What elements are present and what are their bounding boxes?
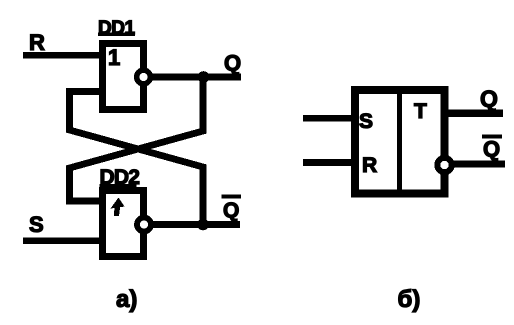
label Qbar (trigger) (482, 135, 502, 162)
label Qbar (222, 195, 242, 223)
wire DD2 output to Qbar (151, 221, 240, 228)
gate DD1 inversion circle (137, 70, 151, 84)
wire S input (23, 238, 103, 245)
node Q junction (198, 71, 210, 83)
inversion circle (trigger) (437, 158, 451, 172)
trigger box outline (355, 90, 445, 194)
svg-text:T: T (414, 100, 427, 123)
label DD1 (98, 18, 135, 39)
wire S input (trigger) (303, 115, 352, 122)
svg-text:б): б) (398, 286, 421, 313)
svg-text:Q: Q (480, 86, 498, 112)
gate DD1 (103, 44, 144, 110)
wire R input (23, 52, 103, 59)
svg-text:R: R (362, 154, 377, 177)
gate DD2 (103, 191, 144, 257)
wire Qbar output (trigger) (452, 161, 505, 168)
gate DD2 symbol 1 (arrow-like) (111, 198, 125, 217)
svg-text:Q: Q (223, 199, 239, 222)
svg-text:R: R (29, 30, 45, 55)
svg-text:S: S (29, 212, 44, 237)
label DD2 (100, 166, 140, 189)
svg-text:а): а) (116, 286, 137, 313)
wire Q output (trigger) (446, 110, 503, 118)
wire Qbar feedback to DD1 lower input (70, 92, 204, 225)
trigger box divider (397, 88, 402, 196)
svg-text:Q: Q (483, 137, 500, 162)
wire DD1 output to Q (150, 74, 241, 81)
svg-text:1: 1 (108, 45, 120, 70)
wire Q feedback to DD2 upper input (70, 80, 204, 201)
svg-text:Q: Q (224, 51, 241, 76)
svg-text:S: S (359, 110, 373, 133)
wire R input (trigger) (303, 159, 352, 166)
node Qbar junction (197, 219, 209, 231)
gate DD2 inversion circle (137, 218, 151, 232)
